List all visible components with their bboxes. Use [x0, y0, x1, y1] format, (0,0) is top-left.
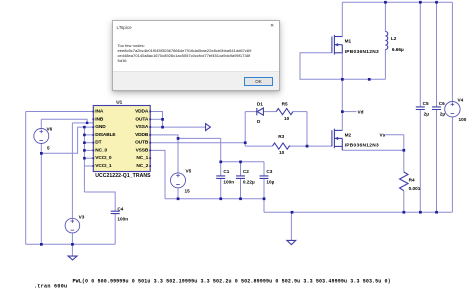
- svg-text:10: 10: [279, 150, 285, 155]
- svg-text:100n: 100n: [117, 217, 128, 222]
- svg-text:100: 100: [459, 117, 467, 122]
- svg-text:C1: C1: [223, 169, 229, 174]
- svg-text:R3: R3: [278, 134, 284, 139]
- svg-text:D1: D1: [257, 102, 263, 107]
- svg-text:DISABLE: DISABLE: [95, 132, 116, 138]
- svg-text:Vd: Vd: [358, 109, 364, 114]
- svg-text:C4: C4: [117, 207, 123, 212]
- svg-text:2µ: 2µ: [440, 112, 446, 117]
- svg-text:VCCI_0: VCCI_0: [95, 155, 112, 161]
- svg-text:C6: C6: [439, 101, 445, 106]
- svg-text:NC_2: NC_2: [136, 163, 148, 169]
- svg-text:L2: L2: [391, 36, 397, 41]
- svg-text:15: 15: [185, 189, 191, 194]
- svg-text:V3: V3: [79, 215, 85, 220]
- svg-text:D: D: [257, 119, 261, 124]
- svg-text:.tran 600u: .tran 600u: [34, 284, 67, 290]
- svg-text:VSSA: VSSA: [136, 124, 149, 130]
- svg-text:R5: R5: [282, 101, 288, 106]
- svg-text:NC_0: NC_0: [95, 147, 107, 153]
- svg-text:INA: INA: [95, 109, 104, 115]
- svg-text:10: 10: [284, 116, 290, 121]
- svg-text:C5: C5: [423, 101, 429, 106]
- svg-text:VDDA: VDDA: [135, 109, 149, 115]
- svg-text:5: 5: [47, 146, 50, 151]
- svg-text:VSSB: VSSB: [136, 147, 149, 153]
- svg-text:IPB036N12N3: IPB036N12N3: [345, 142, 379, 148]
- svg-text:OUTB: OUTB: [135, 140, 149, 146]
- svg-text:V6: V6: [47, 127, 53, 132]
- svg-text:Vs: Vs: [380, 133, 386, 138]
- svg-text:R4: R4: [409, 178, 415, 183]
- svg-text:M1: M1: [345, 39, 352, 44]
- svg-text:C2: C2: [243, 169, 249, 174]
- svg-text:DT: DT: [95, 140, 101, 146]
- svg-text:C3: C3: [266, 169, 272, 174]
- svg-text:NC_1: NC_1: [136, 155, 148, 161]
- svg-text:VDDB: VDDB: [135, 132, 149, 138]
- svg-text:INB: INB: [95, 116, 104, 122]
- svg-text:0.22µ: 0.22µ: [243, 180, 255, 185]
- svg-text:0.001: 0.001: [409, 186, 421, 191]
- svg-text:IPB036N12N3: IPB036N12N3: [345, 49, 379, 55]
- svg-text:V5: V5: [186, 169, 192, 174]
- svg-text:OUTA: OUTA: [135, 116, 148, 122]
- svg-text:PWL(0 0 500.99999u 0 501u 3.3: PWL(0 0 500.99999u 0 501u 3.3 502.19999u…: [73, 279, 391, 285]
- svg-text:VCCI_1: VCCI_1: [95, 163, 112, 169]
- svg-text:M2: M2: [345, 133, 352, 138]
- svg-text:UCC21222-Q1_TRANS: UCC21222-Q1_TRANS: [95, 173, 151, 179]
- svg-text:10µ: 10µ: [266, 180, 274, 185]
- svg-text:U1: U1: [116, 99, 122, 104]
- svg-text:6.66µ: 6.66µ: [392, 47, 404, 52]
- svg-text:100n: 100n: [223, 180, 234, 185]
- svg-text:V4: V4: [458, 98, 464, 103]
- svg-text:GND: GND: [95, 124, 106, 130]
- svg-text:2µ: 2µ: [424, 112, 430, 117]
